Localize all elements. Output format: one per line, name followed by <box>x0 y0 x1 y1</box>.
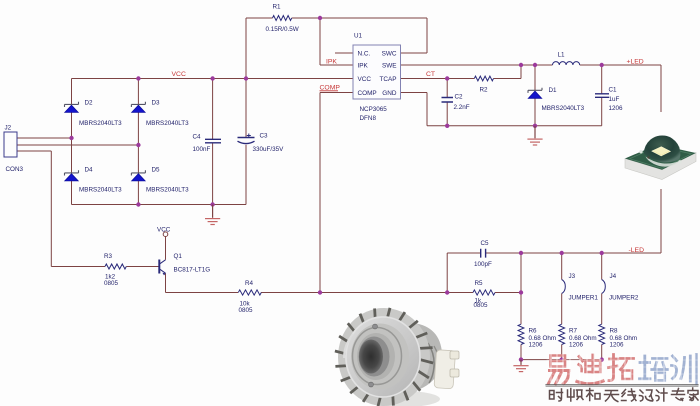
resistor R5 <box>473 290 495 295</box>
svg-text:C5: C5 <box>481 240 490 247</box>
node SWE-D1 <box>533 63 537 67</box>
svg-text:R7: R7 <box>569 328 578 335</box>
svg-text:D2: D2 <box>85 99 94 106</box>
svg-text:D4: D4 <box>85 166 94 173</box>
diode D5 <box>131 170 145 181</box>
node J2pin1-col1 <box>69 136 73 140</box>
resistor R3 <box>105 264 126 269</box>
svg-text:R6: R6 <box>529 328 538 335</box>
resistor R1 <box>273 16 292 21</box>
wire COMP net <box>320 93 353 293</box>
svg-text:C3: C3 <box>260 133 269 140</box>
svg-text:R4: R4 <box>245 280 254 287</box>
svg-text:+LED: +LED <box>627 59 644 66</box>
svg-text:JUMPER2: JUMPER2 <box>609 295 639 302</box>
node J2pin2-col2 <box>136 143 140 147</box>
svg-text:MBRS2040LT3: MBRS2040LT3 <box>146 120 189 127</box>
wire C4 column <box>212 79 214 205</box>
svg-text:CT: CT <box>426 71 435 78</box>
node LEDrow-J3 <box>560 251 564 255</box>
node VCC-D3 <box>136 76 140 80</box>
watermark char tuo <box>609 355 634 381</box>
svg-text:IPK: IPK <box>358 63 369 70</box>
wire C3 column <box>245 79 247 205</box>
resistor R4 <box>238 290 261 295</box>
svg-text:MBRS2040LT3: MBRS2040LT3 <box>542 105 585 112</box>
svg-text:Q1: Q1 <box>174 253 183 260</box>
wire L1 right to +LED corner <box>580 64 661 66</box>
transistor Q1 <box>159 260 166 276</box>
photo MR16 LED lamp <box>322 299 460 406</box>
svg-text:2.2nF: 2.2nF <box>454 104 470 111</box>
svg-text:U1: U1 <box>354 33 363 40</box>
wire -LED row <box>447 252 661 254</box>
svg-text:1206: 1206 <box>569 341 584 348</box>
node gndrow-D1 <box>533 124 537 128</box>
wire GND pin down <box>401 93 428 126</box>
connector J2 <box>4 132 17 157</box>
node SWE-C1 <box>600 63 604 67</box>
wire bridge col2 <box>137 79 139 205</box>
resistor R2 <box>474 76 493 81</box>
watermark char di <box>577 355 603 384</box>
wire gnd row <box>427 125 602 127</box>
svg-text:R1: R1 <box>273 3 282 10</box>
svg-text:VCC: VCC <box>157 226 171 233</box>
resistor R6 <box>518 324 524 344</box>
capacitor C2 <box>442 98 454 103</box>
node botrow-R7 <box>560 357 564 361</box>
svg-text:MBRS2040LT3: MBRS2040LT3 <box>146 187 189 194</box>
watermark underline <box>546 384 698 386</box>
svg-text:L1: L1 <box>558 52 566 59</box>
photo LED emitter <box>616 112 700 189</box>
wire J2 pin1 <box>17 137 72 139</box>
svg-text:1206: 1206 <box>609 105 624 112</box>
wire VCC row <box>72 78 354 80</box>
wire R1 right to SWC corner <box>292 18 427 53</box>
wire emitter down <box>165 273 167 292</box>
watermark subtitle tian <box>605 391 619 402</box>
svg-text:-LED: -LED <box>629 247 645 254</box>
JUNCTIONS-GROUP <box>69 16 604 362</box>
wire bottom row top-left <box>72 204 247 206</box>
watermark subtitle zhuan <box>672 389 685 401</box>
watermark subtitle she <box>550 389 563 401</box>
node R5row-drop <box>445 290 449 294</box>
svg-text:R3: R3 <box>104 253 113 260</box>
wire R1 left lead <box>246 17 273 19</box>
wire right edge vertical <box>660 65 662 253</box>
diode D3 <box>131 102 145 113</box>
wire J2 pin2 <box>17 144 138 146</box>
node COMP-R4 <box>318 290 322 294</box>
wire base lead <box>126 266 159 268</box>
node VCC-C4 <box>210 76 214 80</box>
wire C2 column <box>446 79 448 126</box>
ground under D1 <box>527 126 542 145</box>
svg-text:D5: D5 <box>152 166 161 173</box>
watermark subtitle jia <box>688 388 698 401</box>
power symbol VCC at Q1 <box>163 232 168 237</box>
jumper J3 <box>562 280 566 294</box>
node botrow-R8 <box>600 357 604 361</box>
wire R6 column <box>520 253 522 360</box>
watermark char yi <box>549 356 570 385</box>
watermark subtitle he <box>587 389 601 401</box>
svg-text:0805: 0805 <box>104 280 119 287</box>
svg-text:VCC: VCC <box>358 76 372 83</box>
node LEDrow-J4 <box>600 251 604 255</box>
wire J2 pin3 to R3 <box>17 151 105 267</box>
svg-text:C4: C4 <box>193 134 202 141</box>
svg-text:VCC: VCC <box>172 71 186 78</box>
op-amp U1 NCP3065 <box>353 45 401 99</box>
capacitor C5 <box>481 249 486 258</box>
ground under R6 <box>513 360 528 372</box>
svg-text:MBRS2040LT3: MBRS2040LT3 <box>79 187 122 194</box>
capacitor C4 <box>205 139 221 143</box>
wire J3 R7 column <box>561 253 563 360</box>
WATERMARK-PLACEHOLDER <box>546 354 698 402</box>
svg-text:GND: GND <box>382 90 397 97</box>
node CT-C2 <box>445 76 449 80</box>
node LEDrow-R6 <box>519 251 523 255</box>
node gndrow-C2 <box>445 124 449 128</box>
svg-text:D1: D1 <box>549 87 558 94</box>
watermark subtitle ji <box>656 389 667 402</box>
wire IPK vertical <box>320 18 353 65</box>
svg-text:0805: 0805 <box>239 307 254 314</box>
svg-text:330uF/35V: 330uF/35V <box>253 146 285 153</box>
svg-text:MBRS2040LT3: MBRS2040LT3 <box>79 120 122 127</box>
watermark texture streaks <box>551 354 695 384</box>
node SWE-R2 <box>519 63 523 67</box>
wire R4 R5 row <box>166 292 522 294</box>
capacitor C3 <box>238 134 255 144</box>
svg-text:0805: 0805 <box>474 302 489 309</box>
node R5-R6col <box>519 290 523 294</box>
watermark char pei <box>640 356 668 380</box>
diode D4 <box>65 170 79 181</box>
svg-text:SWC: SWC <box>382 51 397 58</box>
node bottomrow-C4 <box>210 202 214 206</box>
svg-text:100pF: 100pF <box>474 261 492 268</box>
svg-text:J2: J2 <box>5 125 12 132</box>
svg-text:COMP: COMP <box>358 90 377 97</box>
svg-text:100nF: 100nF <box>193 146 211 153</box>
wire C1 column <box>601 65 603 126</box>
svg-text:N.C.: N.C. <box>358 51 371 58</box>
svg-text:C1: C1 <box>609 87 618 94</box>
watermark subtitle she2 <box>640 390 654 401</box>
wire left vertical R1/C3 <box>245 18 247 79</box>
node bottomrow-col2 <box>136 202 140 206</box>
wire TCAP CT row <box>401 65 522 79</box>
svg-text:C2: C2 <box>455 94 464 101</box>
svg-text:R8: R8 <box>610 328 619 335</box>
wire N.C. stub <box>335 52 353 54</box>
svg-text:IPK: IPK <box>326 58 337 65</box>
svg-text:BC817-LT1G: BC817-LT1G <box>174 266 211 273</box>
wire J4 R8 column <box>601 253 603 360</box>
inductor L1 <box>553 62 580 65</box>
svg-text:R2: R2 <box>480 87 489 94</box>
ground under C4 <box>205 205 220 225</box>
svg-text:SWE: SWE <box>382 63 397 70</box>
diode D1 <box>528 88 542 99</box>
svg-text:CON3: CON3 <box>6 166 24 173</box>
wire D1 column <box>534 65 536 126</box>
wire C5 row drop <box>446 253 448 293</box>
svg-text:TCAP: TCAP <box>379 76 396 83</box>
wire bottom right row <box>521 359 602 361</box>
svg-text:NCP3065: NCP3065 <box>360 106 388 113</box>
resistor R7 <box>559 324 565 344</box>
svg-text:D3: D3 <box>152 99 161 106</box>
wire Q1 collector <box>165 237 167 260</box>
COMPONENTS-PLACEHOLDER <box>4 16 609 345</box>
wire SWE row to L1 <box>401 64 553 66</box>
svg-text:0.15R/0.5W: 0.15R/0.5W <box>266 26 299 33</box>
wire bridge col1 <box>71 79 73 205</box>
net COMP underline <box>320 90 339 92</box>
node botrow-R6 <box>519 357 523 361</box>
svg-text:DFN8: DFN8 <box>360 115 377 122</box>
jumper J4 <box>602 280 606 294</box>
node R1-IPK junction <box>318 16 322 20</box>
watermark subtitle pin <box>568 389 584 402</box>
watermark char xun <box>672 355 697 385</box>
svg-text:1206: 1206 <box>610 341 625 348</box>
svg-text:1uF: 1uF <box>609 96 620 103</box>
svg-text:JUMPER1: JUMPER1 <box>569 295 599 302</box>
diode D2 <box>65 102 79 113</box>
svg-text:J4: J4 <box>610 273 617 280</box>
WIRES-GROUP <box>17 18 661 360</box>
TEXT-PLACEHOLDER <box>5 3 639 348</box>
svg-text:1206: 1206 <box>529 341 544 348</box>
node VCC-C3 <box>244 76 248 80</box>
watermark subtitle xian <box>622 389 637 401</box>
svg-text:J3: J3 <box>569 273 576 280</box>
resistor R8 <box>599 324 605 344</box>
svg-text:R5: R5 <box>475 280 484 287</box>
capacitor C1 <box>595 94 609 98</box>
